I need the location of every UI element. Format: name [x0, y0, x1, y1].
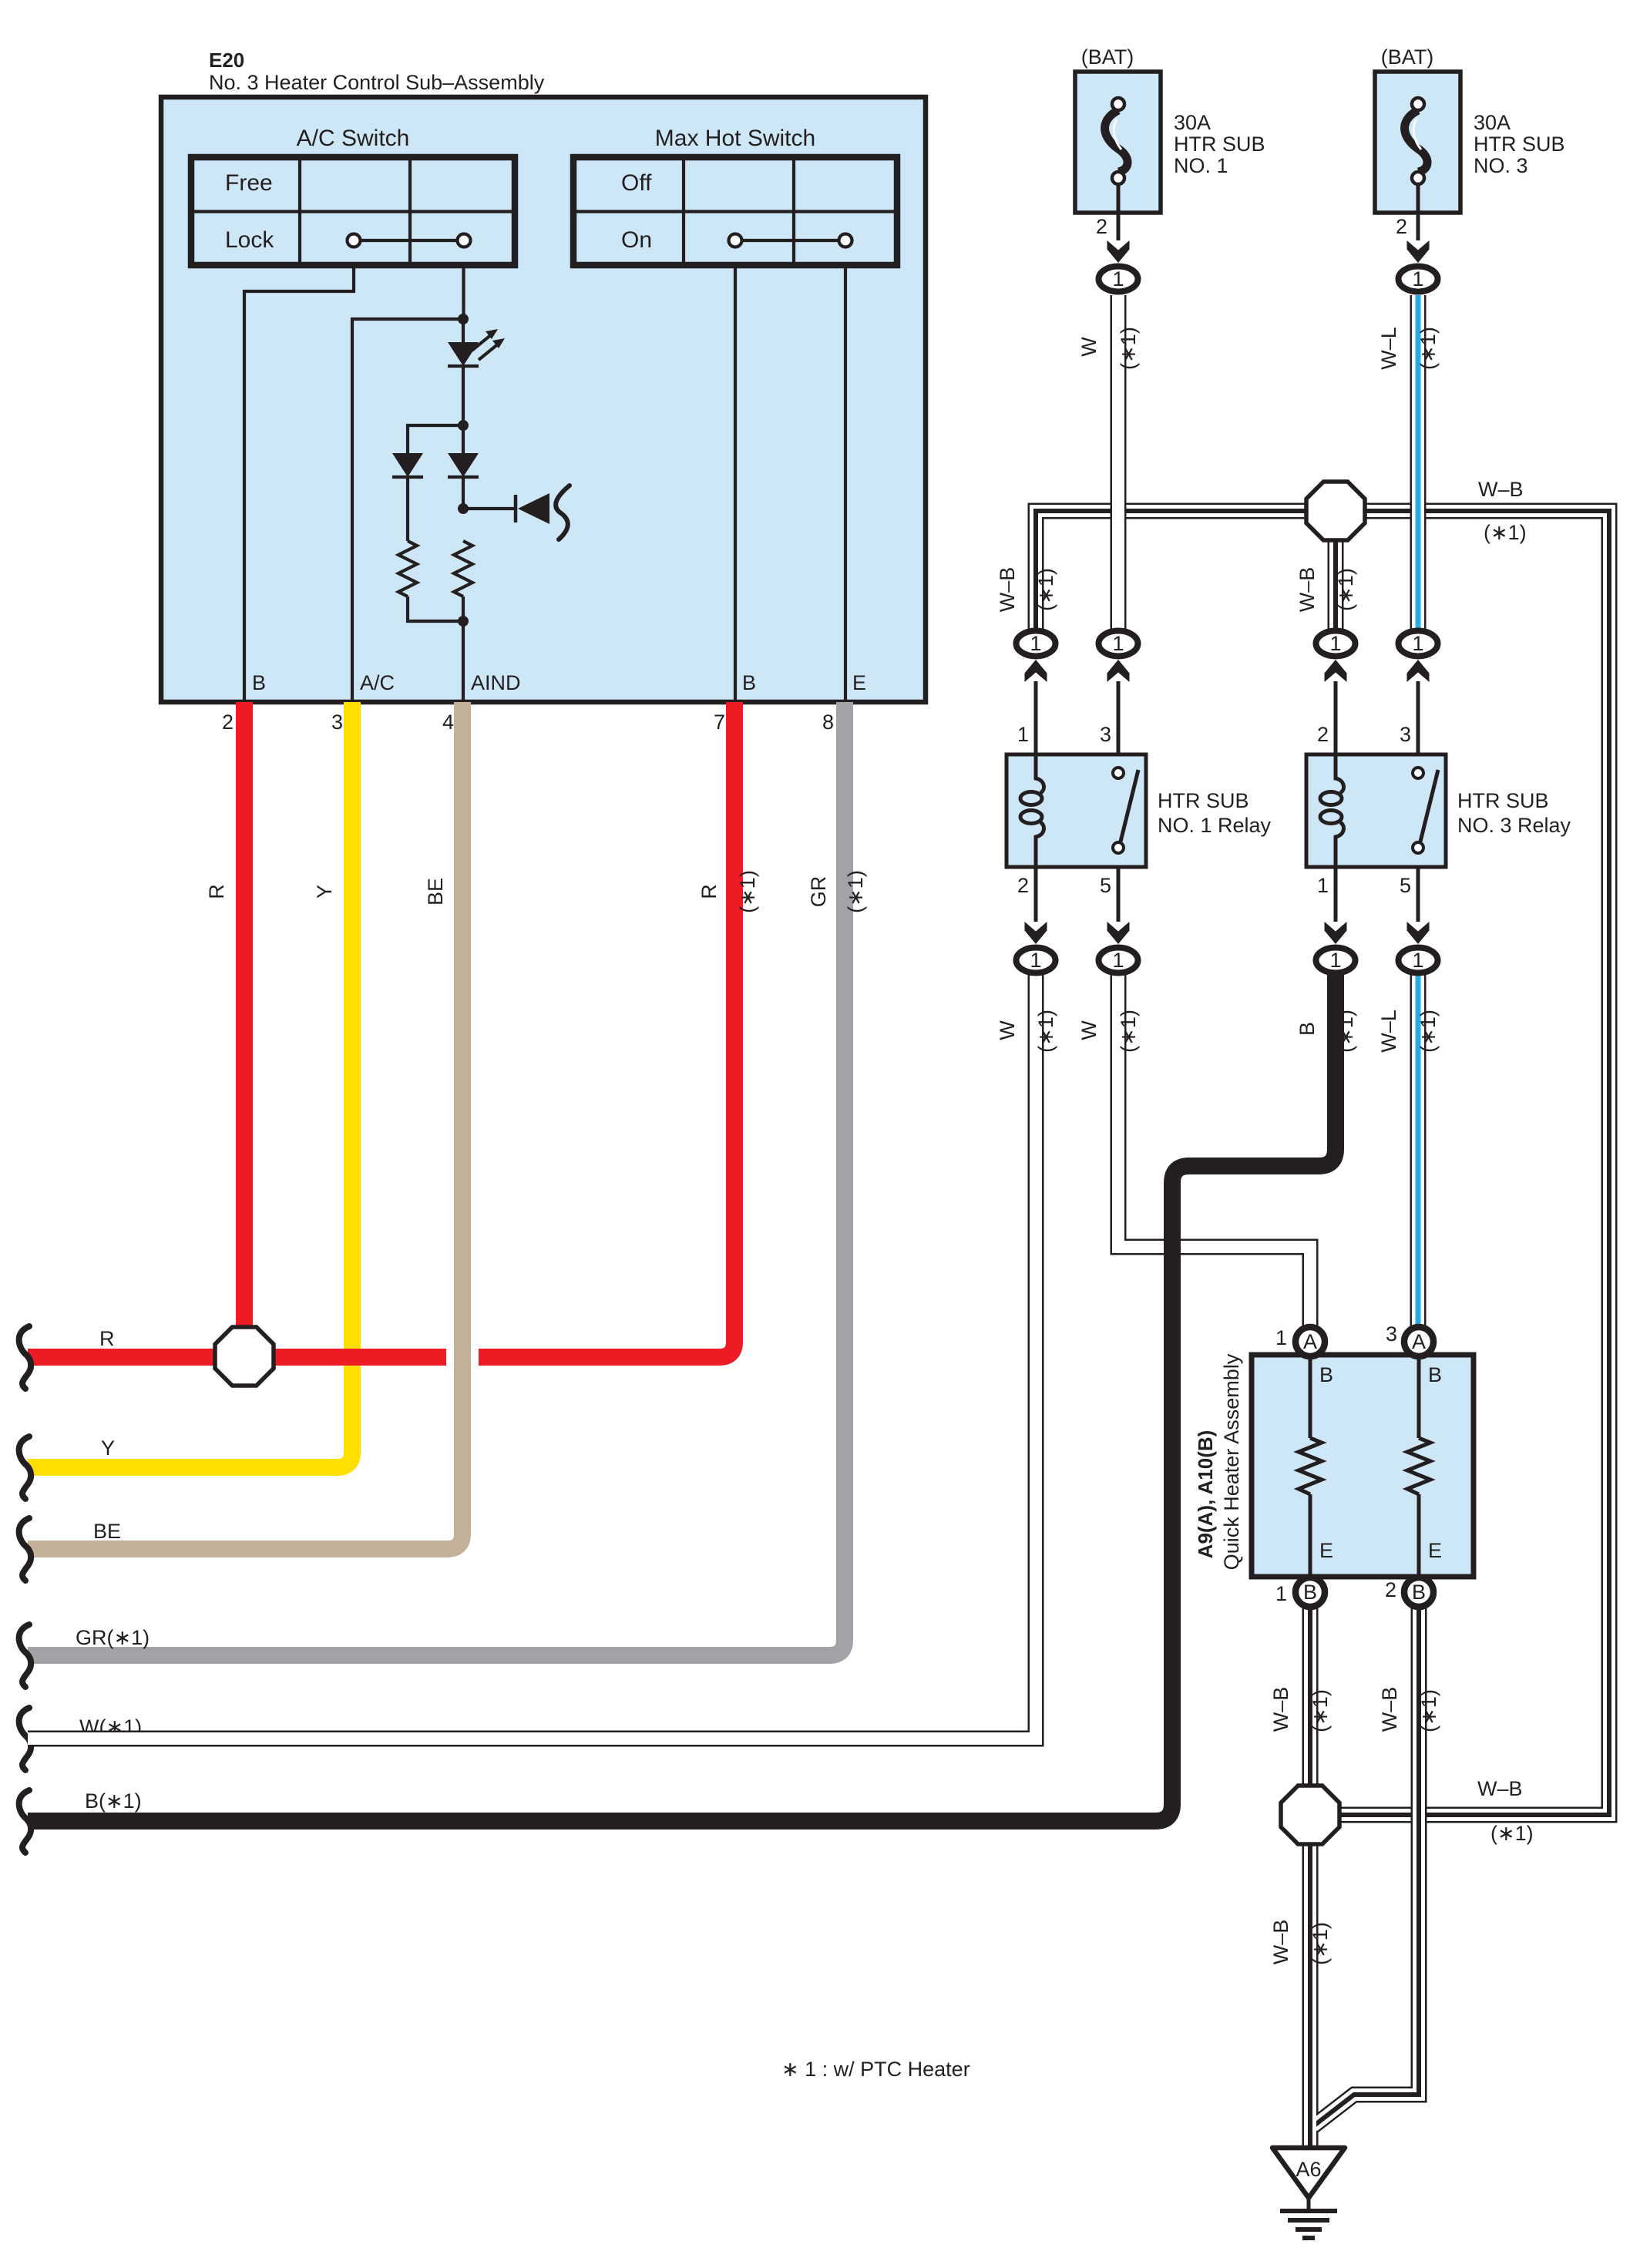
diode D2	[448, 425, 479, 509]
heater element 1	[1299, 1356, 1322, 1577]
svg-text:A: A	[1303, 1330, 1317, 1353]
svg-text:(∗1): (∗1)	[844, 870, 867, 913]
switch table A/C Switch	[191, 157, 515, 265]
switch	[1420, 770, 1438, 842]
svg-text:E: E	[1319, 1539, 1333, 1562]
svg-text:Lock: Lock	[225, 227, 274, 253]
svg-text:B: B	[742, 671, 756, 694]
connector 1 relay3 pin5	[1399, 948, 1438, 973]
svg-text:HTR SUB: HTR SUB	[1474, 133, 1565, 156]
svg-text:(∗1): (∗1)	[1034, 1010, 1057, 1053]
wire connector to relay3 pin3	[1417, 681, 1420, 754]
svg-text:W–B: W–B	[1478, 478, 1524, 501]
wire relay3 pin1 to connector	[1334, 867, 1338, 922]
svg-text:3: 3	[331, 711, 343, 734]
wire Max Hot to pin 7 (B)	[734, 265, 737, 702]
connector 1 (W-L fuse3)	[1399, 631, 1438, 657]
wire W from relay1 pin2 to left edge W(*1)	[28, 969, 1036, 1739]
component Quick Heater Assembly box	[1252, 1355, 1474, 1577]
svg-text:E: E	[1428, 1539, 1442, 1562]
arrow into connector below fuse3	[1407, 240, 1430, 263]
resistor R1	[398, 541, 417, 596]
svg-text:3: 3	[1400, 723, 1411, 746]
svg-text:(∗1): (∗1)	[1484, 521, 1527, 544]
arrow into connector (relay3 pin1)	[1325, 922, 1347, 944]
svg-text:NO. 1: NO. 1	[1174, 154, 1228, 177]
svg-text:BE: BE	[424, 878, 447, 906]
wire W-B from quick heater B2 joining ground wire	[1313, 1608, 1419, 2126]
svg-text:Y: Y	[101, 1436, 115, 1460]
svg-text:1: 1	[1275, 1326, 1287, 1349]
component E20 No.3 Heater Control Sub-Assembly box	[161, 97, 926, 702]
svg-text:B: B	[1319, 1363, 1333, 1386]
svg-text:W–B: W–B	[1269, 1920, 1292, 1965]
relay HTR SUB NO.3	[1306, 754, 1446, 867]
contact Max Hot switch (On row)	[729, 234, 852, 247]
svg-text:1: 1	[1275, 1582, 1287, 1605]
fuse HTR SUB NO.3 30A	[1375, 72, 1460, 240]
wire connector to relay1 pin3	[1117, 681, 1121, 754]
squiggle wire W continuation	[19, 1708, 32, 1770]
svg-text:W–B: W–B	[1378, 1687, 1401, 1732]
wire Y (yellow) pin3 to left edge	[28, 702, 352, 1467]
svg-text:W: W	[1077, 1020, 1101, 1040]
svg-text:W: W	[1077, 337, 1101, 357]
svg-text:(∗1): (∗1)	[1334, 568, 1357, 611]
fuse HTR SUB NO.1 30A	[1075, 72, 1161, 240]
switch table Max Hot Switch	[573, 157, 897, 265]
junction octagon on wire R	[215, 1327, 274, 1386]
svg-text:AIND: AIND	[471, 671, 521, 694]
svg-text:(BAT): (BAT)	[1381, 45, 1434, 69]
wire W-B octagon to ground A6 (outline)	[1302, 1844, 1319, 2148]
wire BE (beige) pin4 to left edge	[446, 1342, 479, 1373]
svg-text:5: 5	[1400, 874, 1411, 897]
svg-text:4: 4	[442, 711, 454, 734]
squiggle wire R continuation	[19, 1326, 32, 1389]
svg-text:GR(∗1): GR(∗1)	[76, 1626, 150, 1649]
svg-text:A/C Switch: A/C Switch	[297, 126, 410, 151]
svg-text:Quick Heater Assembly: Quick Heater Assembly	[1220, 1353, 1243, 1570]
svg-text:No. 3 Heater Control Sub–Assem: No. 3 Heater Control Sub–Assembly	[209, 71, 545, 94]
connector 1 relay1 pin5	[1099, 948, 1138, 973]
wire connector to relay3 pin2	[1334, 681, 1338, 754]
svg-text:NO. 3 Relay: NO. 3 Relay	[1457, 814, 1571, 837]
wire to pin 4 (AIND)	[462, 621, 465, 702]
svg-text:W–L: W–L	[1377, 1010, 1400, 1053]
svg-text:Off: Off	[621, 170, 652, 196]
connector B pin2	[1404, 1578, 1433, 1607]
svg-text:B: B	[1412, 1581, 1426, 1604]
svg-text:2: 2	[1396, 215, 1407, 238]
svg-text:(∗1): (∗1)	[1490, 1822, 1534, 1845]
svg-text:W: W	[996, 1020, 1019, 1040]
svg-text:(∗1): (∗1)	[1334, 1010, 1357, 1053]
svg-text:W–B: W–B	[1477, 1777, 1523, 1800]
LED indicator diode	[448, 319, 505, 425]
svg-text:(∗1): (∗1)	[1417, 1689, 1440, 1732]
svg-text:Free: Free	[225, 170, 273, 196]
connector 1 relay1 pin2	[1017, 948, 1056, 973]
wire from A/C switch to pin 2 (B)	[244, 265, 354, 702]
wire B from relay3 pin1 to left edge B(*1)	[28, 969, 1336, 1821]
wire W from relay1 pin5 to quick heater A1	[1118, 969, 1310, 1326]
relay HTR SUB NO.1	[1007, 754, 1146, 867]
wire branch left to diode D1	[408, 425, 463, 453]
wire from A/C switch contact down to LED chain	[462, 265, 465, 319]
connector 1 (W fuse1)	[1099, 631, 1138, 657]
svg-text:A9(A), A10(B): A9(A), A10(B)	[1194, 1430, 1217, 1559]
svg-text:30A: 30A	[1474, 111, 1511, 134]
arrow up into connector (relay1 pin3)	[1107, 660, 1130, 682]
svg-text:(∗1): (∗1)	[1417, 327, 1440, 370]
svg-text:2: 2	[1017, 874, 1029, 897]
svg-text:2: 2	[222, 711, 234, 734]
svg-text:R: R	[205, 884, 228, 899]
squiggle wire Y continuation	[19, 1436, 32, 1499]
arrow up into connector (relay3 pin3)	[1407, 660, 1430, 682]
arrow into connector (relay1 pin2)	[1025, 922, 1047, 944]
squiggle wire BE continuation	[19, 1518, 32, 1581]
wire W-B drop from octagon to connector	[1335, 511, 1336, 643]
svg-text:B: B	[252, 671, 266, 694]
LED emission arrows	[472, 334, 492, 351]
svg-text:R: R	[99, 1327, 115, 1350]
node junction below LED	[458, 420, 469, 431]
svg-text:HTR SUB: HTR SUB	[1158, 789, 1249, 812]
connector A pin1	[1296, 1327, 1325, 1356]
coil	[1336, 754, 1344, 793]
svg-text:1: 1	[1017, 723, 1029, 746]
wire W-B octagon to ground A6	[1309, 1844, 1311, 2148]
svg-text:B: B	[1296, 1022, 1319, 1036]
svg-text:E: E	[852, 671, 866, 694]
svg-text:2: 2	[1385, 1578, 1396, 1601]
svg-text:W–L: W–L	[1377, 327, 1400, 370]
wire W-B from quick heater B1 to octagon	[1309, 1608, 1311, 1786]
svg-text:BE: BE	[93, 1520, 121, 1543]
arrow into connector (relay3 pin5)	[1407, 922, 1430, 944]
svg-text:(∗1): (∗1)	[1117, 1010, 1140, 1053]
thermal diode (left pointing)	[463, 486, 570, 539]
connector 1 (W-B octagon)	[1316, 631, 1356, 657]
arrow into connector below fuse1	[1107, 240, 1130, 263]
wire GR (gray) pin8 to left edge	[28, 702, 845, 1655]
wire relay1 pin2 to connector	[1034, 867, 1038, 922]
svg-text:On: On	[621, 227, 652, 253]
connector 1 relay3 pin1	[1316, 948, 1356, 973]
svg-text:30A: 30A	[1174, 111, 1211, 134]
svg-text:B: B	[1303, 1581, 1317, 1604]
svg-text:Max Hot Switch: Max Hot Switch	[655, 126, 815, 151]
svg-text:B: B	[1428, 1363, 1442, 1386]
svg-text:(∗1): (∗1)	[1309, 1689, 1332, 1732]
svg-text:NO. 3: NO. 3	[1474, 154, 1528, 177]
svg-text:5: 5	[1100, 874, 1111, 897]
svg-text:∗ 1 : w/ PTC Heater: ∗ 1 : w/ PTC Heater	[781, 2058, 970, 2081]
svg-text:R: R	[697, 884, 721, 899]
resistor R2	[454, 541, 472, 596]
ground connector A6 triangle	[1272, 2148, 1345, 2198]
svg-text:3: 3	[1100, 723, 1111, 746]
svg-text:1: 1	[1317, 874, 1329, 897]
squiggle wire B continuation	[19, 1790, 32, 1853]
svg-text:(∗1): (∗1)	[1417, 1010, 1440, 1053]
arrow up into connector (relay3 pin2)	[1325, 660, 1347, 682]
svg-text:W–B: W–B	[1296, 567, 1319, 613]
junction octagon W-B top	[1306, 482, 1365, 540]
wire W-L from fuse 3	[1417, 295, 1419, 643]
ground symbol	[1280, 2198, 1337, 2238]
contact A/C switch (Lock row)	[348, 234, 471, 247]
wire joining resistors to pin 4	[408, 596, 463, 621]
svg-text:NO. 1 Relay: NO. 1 Relay	[1158, 814, 1272, 837]
svg-text:(∗1): (∗1)	[1034, 568, 1057, 611]
connector 1 below fuse3	[1399, 267, 1438, 292]
connector B pin1	[1296, 1578, 1325, 1607]
svg-text:E20: E20	[209, 49, 244, 72]
svg-text:2: 2	[1317, 723, 1329, 746]
svg-text:B(∗1): B(∗1)	[85, 1789, 142, 1813]
svg-text:(∗1): (∗1)	[1309, 1922, 1332, 1965]
wire W from fuse 1	[1117, 295, 1119, 643]
svg-text:GR: GR	[807, 876, 830, 908]
squiggle wire GR continuation	[19, 1625, 32, 1687]
svg-text:A: A	[1412, 1330, 1426, 1353]
svg-text:A/C: A/C	[360, 671, 395, 694]
node junction at LED top	[458, 314, 469, 324]
connector 1 (W-B left)	[1017, 631, 1056, 657]
wire relay1 pin5 to connector	[1117, 867, 1121, 922]
node junction above pin 4	[458, 616, 469, 627]
arrow into connector (relay1 pin5)	[1107, 922, 1130, 944]
switch	[1121, 770, 1138, 842]
svg-text:(∗1): (∗1)	[736, 870, 759, 913]
svg-text:W–B: W–B	[1269, 1687, 1292, 1732]
svg-text:A6: A6	[1296, 2158, 1321, 2181]
wire Max Hot to pin 8 (E)	[844, 265, 847, 702]
svg-text:HTR SUB: HTR SUB	[1174, 133, 1265, 156]
wire W-B main bundle (hollow white with black core)	[1036, 511, 1609, 1815]
svg-text:8: 8	[822, 711, 834, 734]
svg-text:(BAT): (BAT)	[1081, 45, 1134, 69]
arrow up into connector (relay1 pin1)	[1025, 660, 1047, 682]
wire R (red) pin2 to octagon and to pin7	[236, 702, 253, 1357]
svg-text:3: 3	[1386, 1322, 1397, 1346]
svg-text:2: 2	[1096, 215, 1107, 238]
node junction at thermal diode branch	[458, 503, 469, 514]
svg-text:(∗1): (∗1)	[1117, 327, 1140, 370]
svg-text:Y: Y	[313, 885, 336, 899]
svg-text:HTR SUB: HTR SUB	[1457, 789, 1549, 812]
connector A pin3	[1404, 1327, 1433, 1356]
svg-text:7: 7	[714, 711, 725, 734]
heater element 2	[1407, 1356, 1430, 1577]
svg-text:W–B: W–B	[996, 567, 1019, 613]
connector 1 below fuse1	[1099, 267, 1138, 292]
wire connector to relay1 pin1	[1034, 681, 1038, 754]
wire branch to pin 3 (A/C)	[352, 319, 463, 702]
diode D1	[392, 453, 423, 541]
junction octagon W-B bottom	[1281, 1786, 1339, 1844]
wire W-L from relay3 pin5 to quick heater A3	[1417, 969, 1419, 1327]
coil	[1036, 754, 1044, 793]
wire relay3 pin5 to connector	[1417, 867, 1420, 922]
